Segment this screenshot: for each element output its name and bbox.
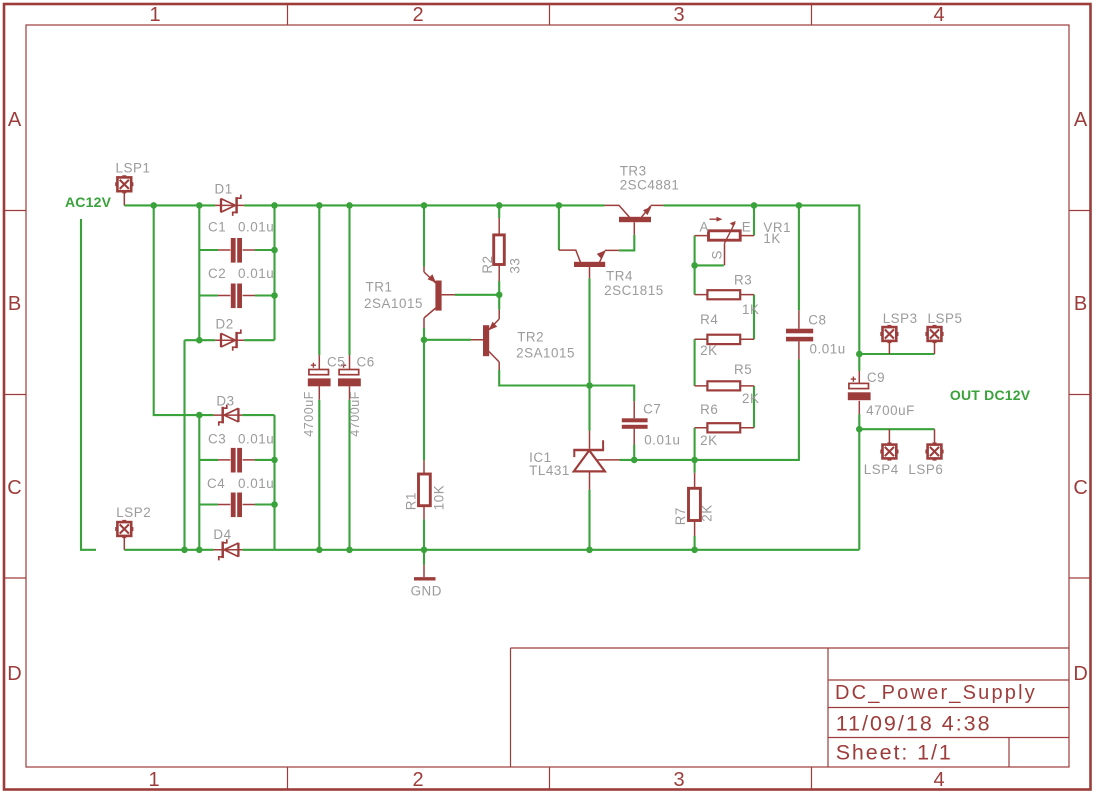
svg-text:A: A — [1074, 109, 1088, 131]
svg-text:4700uF: 4700uF — [302, 391, 316, 437]
svg-text:R3: R3 — [734, 273, 752, 288]
svg-text:2: 2 — [412, 4, 423, 26]
svg-text:C9: C9 — [867, 370, 885, 385]
svg-text:R7: R7 — [673, 507, 688, 525]
svg-text:D2: D2 — [216, 317, 234, 332]
svg-text:1K: 1K — [763, 231, 780, 246]
svg-text:TL431: TL431 — [529, 463, 570, 478]
svg-text:1: 1 — [149, 4, 160, 26]
svg-text:R4: R4 — [700, 312, 718, 327]
svg-text:10K: 10K — [432, 485, 447, 510]
svg-text:C4: C4 — [207, 476, 225, 491]
svg-text:TR3: TR3 — [620, 164, 647, 179]
svg-text:2: 2 — [412, 769, 423, 791]
svg-text:C8: C8 — [808, 313, 826, 328]
svg-text:2SC4881: 2SC4881 — [620, 178, 680, 193]
svg-text:D: D — [1073, 663, 1087, 685]
svg-text:R5: R5 — [734, 362, 752, 377]
svg-text:TR1: TR1 — [366, 280, 393, 295]
svg-text:C3: C3 — [208, 432, 226, 447]
svg-text:C: C — [7, 477, 21, 499]
svg-text:2SA1015: 2SA1015 — [364, 296, 423, 311]
svg-text:0.01u: 0.01u — [238, 432, 274, 447]
svg-text:OUT DC12V: OUT DC12V — [950, 387, 1031, 403]
svg-text:DC_Power_Supply: DC_Power_Supply — [835, 682, 1037, 704]
svg-text:4: 4 — [933, 769, 944, 791]
svg-text:D1: D1 — [215, 182, 233, 197]
svg-text:LSP4: LSP4 — [864, 462, 899, 477]
svg-text:S: S — [710, 250, 725, 259]
svg-text:2K: 2K — [700, 433, 717, 448]
svg-text:4700uF: 4700uF — [348, 391, 362, 437]
svg-text:LSP2: LSP2 — [116, 505, 151, 520]
svg-text:2K: 2K — [700, 343, 717, 358]
svg-text:LSP5: LSP5 — [928, 311, 963, 326]
svg-text:1: 1 — [148, 769, 159, 791]
svg-text:R6: R6 — [700, 402, 718, 417]
svg-text:A: A — [700, 220, 709, 235]
svg-text:0.01u: 0.01u — [238, 266, 274, 281]
svg-text:0.01u: 0.01u — [238, 476, 274, 491]
svg-text:4: 4 — [933, 4, 944, 26]
svg-text:R1: R1 — [403, 492, 418, 510]
svg-text:3: 3 — [673, 4, 684, 26]
svg-text:0.01u: 0.01u — [644, 433, 680, 448]
svg-text:33: 33 — [508, 258, 523, 274]
svg-text:0.01u: 0.01u — [810, 342, 846, 357]
svg-text:GND: GND — [411, 584, 442, 599]
svg-text:C2: C2 — [208, 266, 226, 281]
svg-text:AC12V: AC12V — [65, 194, 112, 210]
svg-text:2K: 2K — [699, 504, 714, 521]
svg-text:2K: 2K — [742, 391, 759, 406]
svg-text:2SA1015: 2SA1015 — [516, 346, 575, 361]
svg-text:3: 3 — [673, 769, 684, 791]
svg-text:Sheet: 1/1: Sheet: 1/1 — [836, 741, 953, 765]
svg-text:B: B — [8, 293, 21, 315]
svg-text:B: B — [1074, 293, 1087, 315]
svg-text:1K: 1K — [742, 302, 759, 317]
svg-text:LSP6: LSP6 — [908, 462, 943, 477]
svg-text:C7: C7 — [643, 402, 661, 417]
svg-text:A: A — [8, 109, 22, 131]
svg-text:D: D — [7, 663, 21, 685]
svg-text:0.01u: 0.01u — [238, 220, 274, 235]
svg-text:D4: D4 — [213, 527, 231, 542]
svg-text:C6: C6 — [357, 355, 375, 370]
svg-text:C1: C1 — [208, 220, 226, 235]
svg-text:D3: D3 — [216, 394, 234, 409]
svg-text:LSP3: LSP3 — [883, 311, 918, 326]
svg-text:TR4: TR4 — [606, 269, 633, 284]
svg-text:E: E — [742, 220, 751, 235]
svg-text:TR2: TR2 — [517, 330, 544, 345]
svg-text:2SC1815: 2SC1815 — [604, 283, 664, 298]
svg-text:LSP1: LSP1 — [116, 161, 151, 176]
svg-text:C: C — [1073, 477, 1087, 499]
svg-text:R2: R2 — [480, 255, 495, 273]
svg-text:11/09/18 4:38: 11/09/18 4:38 — [836, 712, 992, 736]
svg-text:C5: C5 — [327, 355, 345, 370]
svg-text:4700uF: 4700uF — [866, 403, 915, 418]
